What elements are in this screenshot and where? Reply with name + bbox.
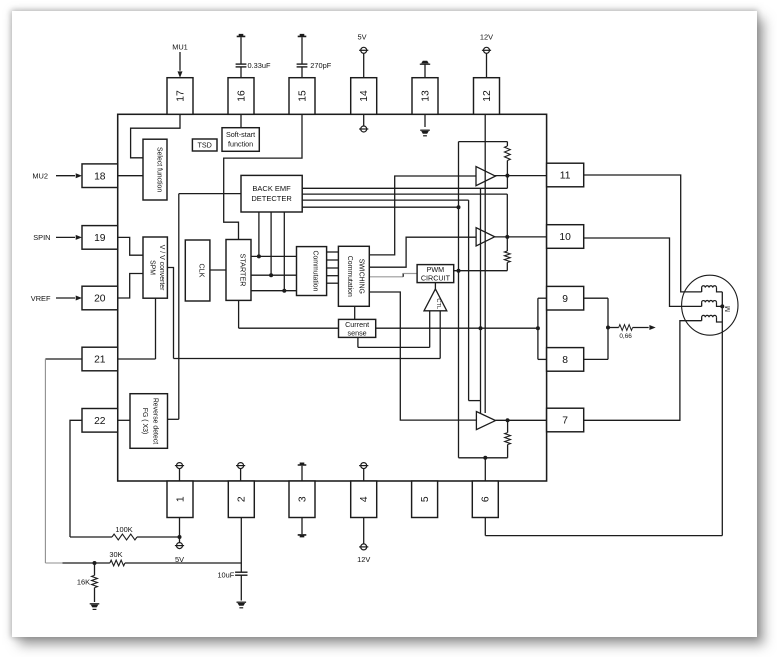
svg-text:Current: Current — [345, 320, 369, 329]
svg-text:0,66: 0,66 — [619, 333, 632, 340]
svg-text:5: 5 — [420, 496, 431, 502]
svg-text:CTL: CTL — [435, 298, 441, 309]
svg-text:10: 10 — [559, 232, 571, 243]
svg-text:Commutation: Commutation — [312, 251, 319, 292]
svg-text:M: M — [723, 306, 732, 312]
svg-text:V / V converter: V / V converter — [158, 245, 165, 291]
svg-text:MU2: MU2 — [32, 172, 48, 181]
svg-text:Select function: Select function — [156, 147, 163, 192]
svg-text:7: 7 — [562, 416, 568, 427]
svg-text:12V: 12V — [480, 32, 493, 41]
svg-text:SWICHING: SWICHING — [358, 259, 365, 294]
svg-text:8: 8 — [562, 355, 568, 366]
svg-text:sense: sense — [348, 329, 367, 338]
svg-text:5V: 5V — [357, 32, 366, 41]
svg-text:TSD: TSD — [198, 141, 212, 150]
svg-text:13: 13 — [420, 90, 431, 102]
svg-text:10uF: 10uF — [217, 571, 234, 580]
svg-text:22: 22 — [94, 416, 106, 427]
svg-text:0.33uF: 0.33uF — [248, 61, 271, 70]
svg-text:21: 21 — [94, 355, 106, 366]
svg-text:19: 19 — [94, 233, 106, 244]
svg-text:20: 20 — [94, 294, 106, 305]
svg-text:Commutation: Commutation — [346, 256, 353, 297]
svg-text:Reverse detect: Reverse detect — [152, 398, 159, 444]
svg-text:15: 15 — [297, 90, 308, 102]
svg-text:14: 14 — [359, 90, 370, 102]
svg-text:30K: 30K — [109, 550, 122, 559]
svg-text:BACK EMF: BACK EMF — [252, 184, 291, 193]
svg-text:SPIN: SPIN — [33, 233, 50, 242]
svg-text:DETECTER: DETECTER — [251, 194, 292, 203]
svg-text:MU1: MU1 — [172, 43, 188, 52]
svg-text:9: 9 — [562, 294, 568, 305]
svg-text:4: 4 — [359, 496, 370, 502]
svg-text:FG ( X3): FG ( X3) — [141, 408, 148, 434]
svg-text:18: 18 — [94, 171, 106, 182]
svg-text:2: 2 — [237, 496, 248, 502]
svg-text:270pF: 270pF — [310, 61, 331, 70]
svg-text:12V: 12V — [357, 555, 370, 564]
svg-text:11: 11 — [560, 171, 571, 182]
svg-text:CLK: CLK — [198, 264, 207, 278]
svg-text:16: 16 — [236, 90, 247, 102]
svg-text:Soft-start: Soft-start — [226, 130, 255, 139]
svg-text:1: 1 — [175, 496, 186, 502]
svg-text:VREF: VREF — [31, 294, 51, 303]
svg-text:100K: 100K — [115, 525, 132, 534]
svg-text:12: 12 — [482, 90, 493, 102]
svg-text:STARTER: STARTER — [239, 254, 248, 287]
svg-text:SPM: SPM — [149, 260, 156, 275]
svg-text:function: function — [228, 139, 253, 148]
svg-text:3: 3 — [297, 496, 308, 502]
svg-text:CIRCUIT: CIRCUIT — [421, 274, 451, 283]
svg-text:6: 6 — [481, 496, 492, 502]
svg-text:17: 17 — [175, 90, 186, 102]
svg-text:16K: 16K — [77, 577, 90, 586]
